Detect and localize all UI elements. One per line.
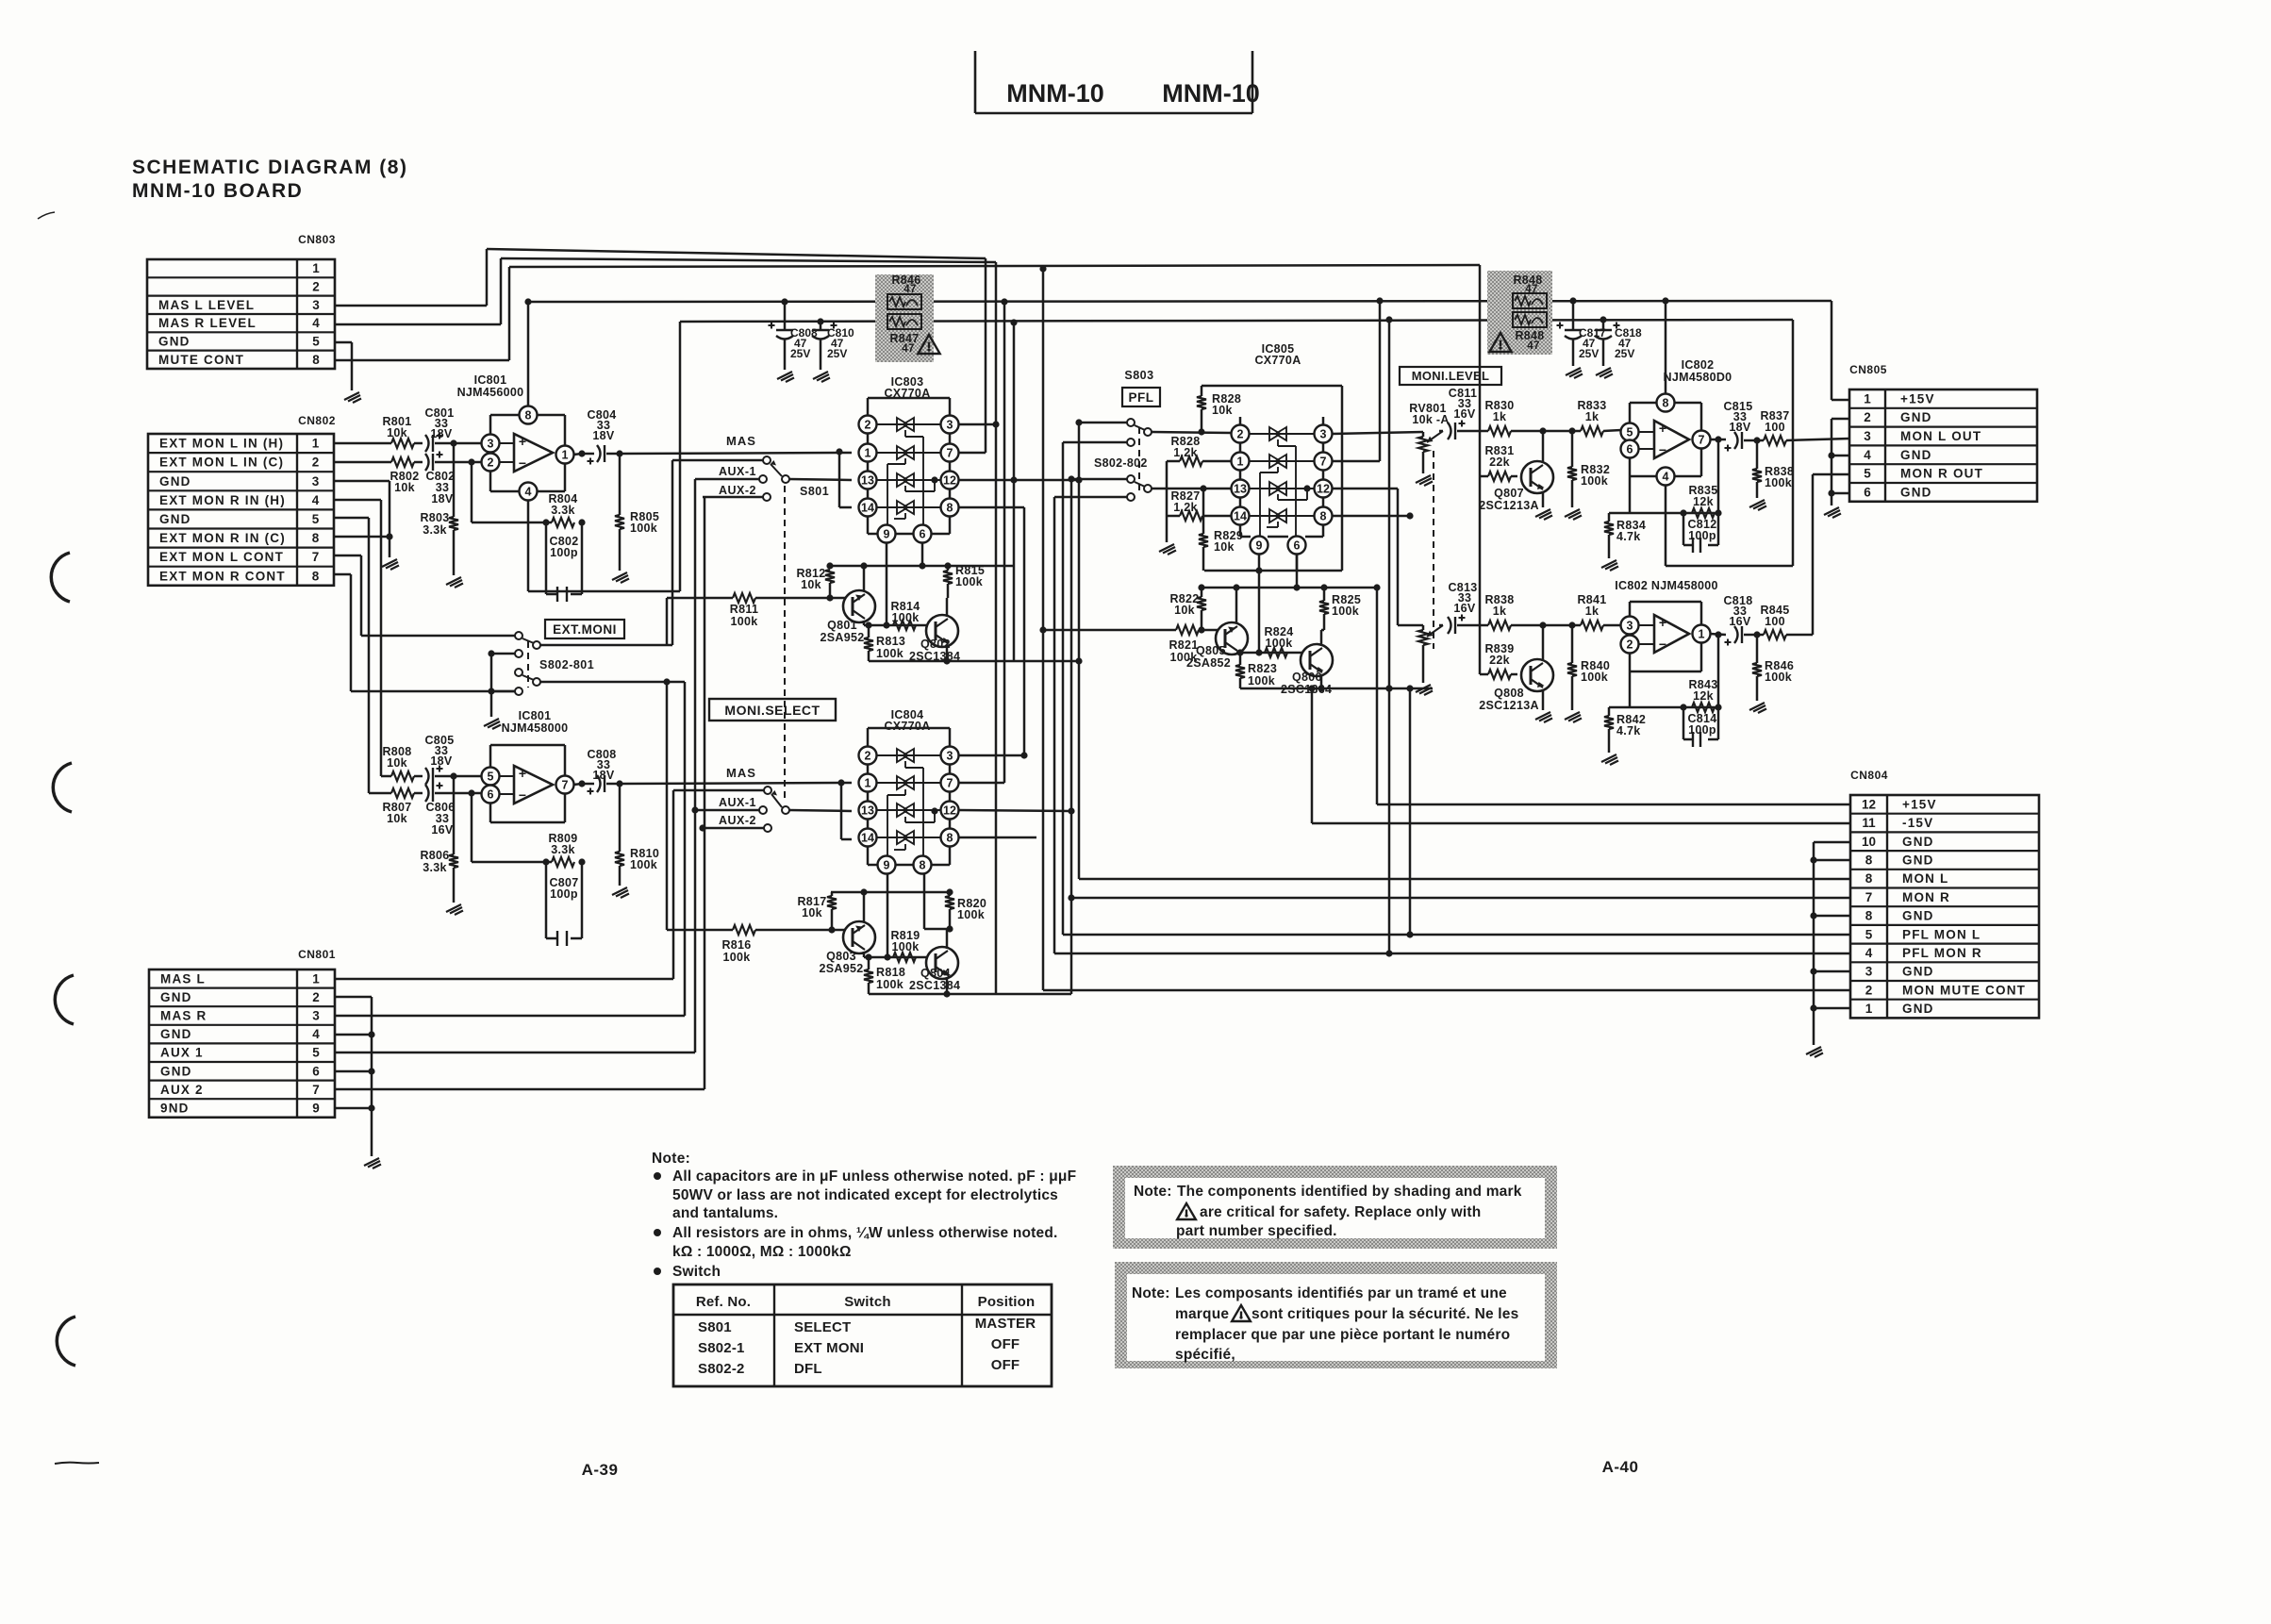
wire Q803 collector node line [864, 956, 928, 959]
capacitor C807 100p feedback [545, 862, 548, 938]
svg-text:+: + [519, 766, 526, 781]
wire PFL MON R riser x1118 [1053, 497, 1056, 953]
capacitor C806 33/16V [425, 785, 429, 802]
svg-text:1: 1 [562, 449, 569, 462]
svg-text:MAS: MAS [726, 766, 756, 780]
wire CN801 pin5 AUX1 riser [335, 1052, 695, 1054]
wire S803 pole2 to IC805 pin13 [1152, 488, 1232, 490]
svg-text:NJM458000: NJM458000 [502, 721, 569, 735]
wire IC805 pin7 line [1332, 460, 1380, 463]
svg-text:All capacitors are in μF unles: All capacitors are in μF unless otherwis… [672, 1168, 1076, 1185]
svg-text:4.7k: 4.7k [1616, 530, 1641, 543]
svg-text:6: 6 [488, 788, 494, 802]
wire Q801 collector node line [864, 624, 928, 627]
resistor R834 4.7k [1608, 513, 1611, 522]
svg-text:MAS L LEVEL: MAS L LEVEL [158, 298, 255, 312]
svg-text:+15V: +15V [1902, 797, 1937, 811]
resistor R839 22k [1480, 673, 1488, 676]
resistor R821 100k [1043, 629, 1176, 632]
capacitor C817 47/25V [1572, 301, 1575, 330]
svg-text:MON R OUT: MON R OUT [1900, 467, 1983, 481]
svg-text:GND: GND [1902, 909, 1934, 923]
wire supply rail Q803 area [831, 891, 953, 894]
svg-text:9: 9 [1256, 539, 1263, 553]
svg-text:100k: 100k [876, 978, 903, 991]
capacitor C804 33/18V [597, 445, 601, 462]
svg-text:PFL MON R: PFL MON R [1902, 946, 1982, 960]
svg-text:marque: marque [1175, 1306, 1229, 1322]
svg-text:7: 7 [947, 777, 953, 790]
svg-text:R813: R813 [876, 635, 905, 648]
svg-text:CN802: CN802 [298, 414, 336, 427]
svg-text:3: 3 [488, 438, 494, 451]
label MONI.LEVEL [1400, 367, 1501, 385]
wire AUX-2 feed deck1 [703, 496, 763, 499]
resistor R842 4.7k [1608, 707, 1611, 716]
svg-text:2: 2 [1864, 410, 1871, 424]
wire supply rail Q801 area [830, 565, 1014, 568]
IC805 bottom box [1204, 570, 1342, 572]
svg-text:CN801: CN801 [298, 948, 336, 961]
wire IC804 pin6 riser [923, 873, 926, 929]
wire IC802A pin4 to -V rail [1665, 485, 1667, 566]
svg-text:part number specified.: part number specified. [1176, 1223, 1337, 1239]
ground below R805 [612, 572, 629, 583]
wire bottom rail Q803 area [869, 993, 1071, 996]
svg-text:16V: 16V [1453, 407, 1476, 421]
svg-text:AUX 1: AUX 1 [160, 1046, 204, 1060]
fusible resistor R848 lower 47 [1513, 312, 1547, 327]
attenuator cells IC804 [876, 754, 941, 756]
svg-text:R818: R818 [876, 966, 905, 979]
wire PFL MON L riser x1127 [1062, 442, 1065, 935]
svg-text:8: 8 [312, 531, 320, 545]
svg-text:S802-2: S802-2 [698, 1361, 745, 1377]
resistor R802 10k [391, 457, 414, 467]
svg-text:3: 3 [312, 298, 320, 312]
wire IC805 pin12 output line [1332, 488, 1398, 490]
node Q803 base [828, 926, 835, 933]
ground CN805 [1824, 507, 1841, 518]
svg-text:−: − [519, 456, 526, 471]
resistor R838 1k [1481, 624, 1488, 627]
svg-text:SCHEMATIC DIAGRAM (8): SCHEMATIC DIAGRAM (8) [132, 157, 407, 178]
wire IC801 pin1 output [573, 454, 582, 455]
svg-text:18V: 18V [430, 754, 453, 768]
svg-text:6: 6 [920, 528, 926, 541]
svg-text:Les composants identifiés par: Les composants identifiés par un tramé e… [1175, 1285, 1507, 1301]
svg-text:16V: 16V [1453, 602, 1476, 615]
wire MON MUTE CONT bus to CN804 [1043, 989, 1850, 992]
wire vertical bus x1056 [995, 262, 998, 994]
ground below R810 [612, 887, 629, 898]
svg-text:13: 13 [1234, 483, 1247, 496]
wire CN801 pin3 MAS R riser [335, 1015, 685, 1018]
page header corner brackets [974, 51, 977, 113]
svg-text:4: 4 [1663, 471, 1669, 484]
svg-text:EXT.MONI: EXT.MONI [553, 622, 617, 637]
svg-text:2SA852: 2SA852 [1186, 656, 1231, 670]
svg-text:100p: 100p [1688, 723, 1716, 737]
svg-text:S802-801: S802-801 [539, 658, 594, 671]
svg-text:13: 13 [861, 804, 874, 818]
svg-text:3: 3 [312, 474, 320, 489]
svg-text:100k: 100k [730, 615, 757, 628]
svg-text:8: 8 [1320, 510, 1327, 523]
svg-text:16V: 16V [1729, 615, 1751, 628]
svg-text:Note:: Note: [1134, 1184, 1172, 1200]
junction to IC803 pin14 [836, 448, 842, 455]
ground below C818 [1596, 368, 1613, 378]
wire IC803 pin3 line [958, 423, 996, 426]
svg-text:25V: 25V [1615, 347, 1634, 360]
svg-text:2SC1213A: 2SC1213A [1479, 699, 1539, 712]
transistor Q801 2SA952 [843, 590, 875, 622]
svg-text:100k: 100k [1581, 474, 1608, 488]
svg-text:12: 12 [943, 474, 956, 488]
svg-text:1: 1 [312, 261, 320, 275]
wire S803 deck2 T1 feed from MON R riser [1071, 478, 1127, 481]
svg-text:AUX-1: AUX-1 [719, 796, 756, 809]
svg-text:3.3k: 3.3k [423, 861, 447, 874]
wire MAS L feed deck2 T1 [673, 789, 764, 792]
svg-text:1.2k: 1.2k [1173, 446, 1198, 459]
svg-text:Q805: Q805 [1196, 644, 1226, 657]
svg-text:GND: GND [1902, 965, 1934, 979]
svg-text:kΩ : 1000Ω, MΩ : 1000kΩ: kΩ : 1000Ω, MΩ : 1000kΩ [672, 1244, 852, 1260]
svg-text:10k: 10k [801, 578, 821, 591]
svg-text:GND: GND [1900, 485, 1932, 499]
node MAS R at C808 output [616, 780, 622, 787]
wire S801 deck1 pole to IC803 pin13 [789, 479, 852, 480]
svg-text:R806: R806 [420, 849, 449, 862]
resistor R805 100k [619, 454, 622, 515]
wire bus C (MUTE CONT) [509, 265, 1480, 267]
transistor Q803 2SA952 [843, 921, 875, 953]
wire CN801 ground chain [335, 996, 372, 999]
resistor R826 1.2k [1167, 460, 1180, 463]
svg-text:100p: 100p [550, 546, 578, 559]
wire CN802 pin5 riser [334, 517, 369, 520]
svg-text:MUTE CONT: MUTE CONT [158, 353, 244, 367]
wire IC804 pin9 riser [887, 873, 889, 957]
resistor R803 3.3k [453, 443, 456, 517]
svg-text:7: 7 [312, 550, 320, 564]
node Q808 collector [1539, 621, 1546, 628]
svg-text:EXT MONI: EXT MONI [794, 1340, 864, 1356]
ground below R803 [446, 577, 463, 588]
svg-text:10k -A: 10k -A [1412, 413, 1449, 426]
feedback wire to R804 [471, 462, 473, 522]
svg-text:10: 10 [1862, 835, 1876, 849]
svg-text:8: 8 [947, 832, 953, 845]
wire IC805 pin3 output line [1332, 432, 1423, 434]
svg-text:EXT MON R IN (H): EXT MON R IN (H) [159, 493, 286, 507]
wire IC802A pin8 riser to bus D [1665, 301, 1667, 393]
svg-text:Position: Position [978, 1294, 1036, 1310]
wire IC802A pin7 output [1710, 439, 1726, 441]
svg-text:100p: 100p [1688, 529, 1716, 542]
wire AUX-1 feed deck1 [695, 478, 759, 481]
svg-text:1: 1 [1237, 456, 1244, 469]
resistor R815 100k [947, 566, 950, 571]
wire -15V line to CN804 pin11 [1312, 822, 1850, 825]
svg-text:GND: GND [160, 1027, 192, 1041]
svg-text:2: 2 [1627, 638, 1633, 652]
svg-text:2: 2 [312, 456, 320, 470]
svg-text:7: 7 [1699, 434, 1705, 447]
svg-text:Q803: Q803 [826, 950, 856, 963]
wire MON L riser x1144 [1078, 423, 1081, 879]
svg-text:IC801: IC801 [519, 709, 552, 722]
svg-text:2: 2 [312, 279, 320, 293]
svg-text:100p: 100p [550, 887, 578, 901]
svg-text:8: 8 [525, 409, 532, 423]
wire IC804 pin12 line [958, 810, 1071, 811]
node R840 top [1568, 621, 1575, 628]
resistor R810 100k [619, 784, 622, 852]
svg-text:47: 47 [902, 343, 914, 355]
svg-text:10k: 10k [1174, 604, 1195, 617]
svg-text:12: 12 [1862, 797, 1876, 811]
svg-text:1: 1 [1699, 628, 1705, 641]
svg-text:25V: 25V [827, 347, 847, 360]
wire CN802 pin7 to EXT.MONI switch [334, 555, 361, 557]
wire MON R bus to CN804 [1071, 897, 1850, 900]
svg-text:Note:: Note: [1132, 1285, 1170, 1301]
capacitor C815 33/18V [1734, 432, 1738, 449]
svg-text:MON MUTE CONT: MON MUTE CONT [1902, 983, 2026, 997]
svg-text:2SC1384: 2SC1384 [909, 979, 960, 992]
resistor R838 100k shunt [1756, 440, 1759, 469]
wire +15V riser to CN804 pin12 [1376, 588, 1379, 804]
wire CN803 pin5 to ground [335, 341, 352, 344]
switch position table [673, 1284, 1052, 1386]
wire CN803 pin3 to bus A [335, 305, 487, 307]
svg-text:18V: 18V [592, 769, 615, 782]
svg-text:3: 3 [312, 1009, 320, 1023]
wire CN805 ground chain [1832, 418, 1849, 421]
node junction at C805 output [450, 772, 456, 779]
label MONI.SELECT [709, 699, 836, 721]
svg-text:13: 13 [861, 474, 874, 488]
svg-text:MASTER: MASTER [975, 1316, 1036, 1332]
svg-text:Note:: Note: [652, 1151, 690, 1167]
svg-text:100k: 100k [722, 951, 750, 964]
wire IC804 pin3 line [958, 754, 1024, 757]
resistor R825 100k [1323, 588, 1326, 601]
transistor Q804 2SC1384 [926, 947, 958, 979]
wire IC801 pin8 riser to bus D [527, 302, 530, 406]
wire MAS line to IC803 [620, 453, 852, 454]
svg-text:+: + [1659, 615, 1666, 630]
svg-text:1k: 1k [1585, 410, 1600, 423]
svg-text:R821: R821 [1169, 638, 1198, 652]
svg-text:1k: 1k [1493, 410, 1507, 423]
wire MON MUTE CONT riser x1106 [1042, 269, 1045, 990]
wire pole2 to MAS R riser [540, 681, 685, 684]
wire Q804 collector node [924, 928, 950, 931]
resistor R809 3.3k [552, 857, 574, 867]
shaded safety block R846/R847 [875, 274, 934, 362]
svg-text:A-39: A-39 [582, 1461, 619, 1479]
wire PFL MON R bus to CN804 [1054, 953, 1850, 955]
svg-text:Q808: Q808 [1494, 687, 1524, 700]
svg-text:IC801: IC801 [474, 373, 507, 387]
svg-text:MONI.LEVEL: MONI.LEVEL [1412, 369, 1489, 383]
svg-text:MAS L: MAS L [160, 971, 206, 986]
svg-text:EXT MON L IN (C): EXT MON L IN (C) [159, 456, 284, 470]
capacitor C810 47/25V [820, 322, 822, 330]
svg-text:CN803: CN803 [298, 233, 336, 246]
transistor Q806 2SC1364 [1301, 644, 1333, 676]
svg-text:GND: GND [1902, 853, 1934, 867]
svg-text:10k: 10k [387, 812, 407, 825]
resistor R845 100 [1764, 630, 1786, 639]
wire +15V riser to CN805 pin1 [1831, 301, 1833, 400]
feedback network IC802A [1629, 476, 1632, 513]
ground CN802 pin3 [382, 559, 399, 570]
wire S802-801 ground chain [491, 653, 515, 655]
capacitor C801 33/18V [425, 435, 429, 452]
resistor R840 100k [1571, 625, 1574, 663]
resistor R801 10k [391, 439, 414, 448]
svg-text:12: 12 [1317, 483, 1330, 496]
svg-text:R811: R811 [730, 603, 758, 616]
svg-text:100k: 100k [891, 611, 919, 624]
wire bus D drop to IC805 pin7 line x1463 [1379, 301, 1382, 461]
svg-text:10k: 10k [394, 481, 415, 494]
switch S803 deck2 [1127, 475, 1135, 483]
ground below C808 47 [777, 372, 794, 382]
svg-text:AUX-2: AUX-2 [719, 814, 756, 827]
svg-text:CN805: CN805 [1849, 363, 1887, 376]
wire IC804 pin8 line [958, 837, 1036, 839]
wire IC803 pin8 line [958, 506, 1024, 509]
svg-text:100k: 100k [1765, 671, 1792, 684]
node Q807 collector [1539, 427, 1546, 434]
svg-text:12k: 12k [1693, 495, 1714, 508]
svg-text:7: 7 [1865, 890, 1873, 904]
node R832 top [1568, 427, 1575, 434]
svg-text:AUX 2: AUX 2 [160, 1083, 204, 1097]
wire MON R riser x1136 [1070, 479, 1073, 994]
ground CN803 pin5 [344, 392, 361, 403]
svg-text:+: + [1659, 421, 1666, 436]
svg-text:50WV or lass are not indicated: 50WV or lass are not indicated except fo… [672, 1187, 1058, 1203]
resistor R830 1k [1481, 430, 1488, 433]
svg-text:18V: 18V [430, 427, 453, 440]
svg-text:6: 6 [1294, 539, 1301, 553]
svg-text:GND: GND [158, 334, 191, 348]
svg-text:PFL: PFL [1129, 390, 1154, 405]
ground CN804 [1806, 1047, 1823, 1057]
resistor R831 22k [1480, 475, 1488, 478]
wire IC805 pin6 riser [1296, 554, 1299, 588]
svg-text:MON R: MON R [1902, 890, 1950, 904]
svg-text:100: 100 [1765, 421, 1785, 434]
wire CN802 pin2 to R802 [334, 461, 391, 464]
svg-text:10k: 10k [1214, 540, 1235, 554]
svg-text:10k: 10k [802, 906, 822, 920]
svg-text:MNM-10: MNM-10 [1006, 79, 1104, 108]
left margin punch-hole arcs [51, 553, 70, 602]
svg-text:4.7k: 4.7k [1616, 724, 1641, 737]
svg-text:18V: 18V [592, 429, 615, 442]
svg-text:47: 47 [1527, 340, 1539, 352]
feedback network IC802B [1629, 671, 1632, 707]
svg-text:5: 5 [488, 771, 494, 784]
attenuator cells IC805 [1249, 433, 1315, 435]
resistor R818 100k [868, 957, 870, 969]
svg-text:The components identified by s: The components identified by shading and… [1177, 1184, 1522, 1200]
node junction at C801 output [450, 439, 456, 446]
wire bus E (+B rail lower) [680, 320, 1793, 322]
svg-text:R823: R823 [1248, 662, 1277, 675]
resistor R841 1k [1581, 621, 1603, 630]
svg-text:2SA952: 2SA952 [821, 631, 865, 644]
resistor R846 100k shunt [1756, 635, 1759, 663]
wire S801 deck2 pole to IC804 pin13 [789, 810, 852, 811]
wire AUX-2 feed deck2 [703, 827, 764, 830]
svg-text:4: 4 [525, 486, 532, 499]
svg-text:6: 6 [1864, 485, 1871, 499]
svg-text:2: 2 [1865, 983, 1873, 997]
svg-text:GND: GND [159, 512, 191, 526]
svg-text:8: 8 [1865, 909, 1873, 923]
svg-text:100k: 100k [1332, 605, 1359, 618]
ground below RV801 lower [1416, 685, 1433, 695]
resistor R812 10k [825, 570, 835, 583]
svg-text:7: 7 [312, 1083, 320, 1097]
wire S801 deck1 T1 feed [672, 459, 763, 462]
svg-text:GND: GND [159, 474, 191, 489]
svg-text:EXT MON L CONT: EXT MON L CONT [159, 550, 284, 564]
svg-text:R803: R803 [420, 511, 449, 524]
mechanical link dash RV801 [1433, 451, 1434, 649]
svg-text:8: 8 [1865, 871, 1873, 886]
IC805 pin circles [1239, 417, 1242, 425]
capacitor C811 33/16V [1439, 430, 1443, 433]
capacitor C812 100p [1683, 513, 1685, 545]
wire bus A (MAS L LEVEL) [487, 249, 986, 258]
svg-text:9: 9 [884, 528, 890, 541]
svg-text:8: 8 [312, 353, 320, 367]
svg-text:S802-1: S802-1 [698, 1340, 745, 1356]
resistor R804 3.3k [552, 518, 574, 527]
ground below R840 [1565, 712, 1582, 722]
svg-text:AUX-1: AUX-1 [719, 465, 756, 478]
wire vertical bus x1065 [1003, 302, 1006, 783]
svg-text:1.2k: 1.2k [1173, 501, 1198, 514]
wire IC801 pin7 output [573, 784, 582, 785]
wire PFL MON L bus to CN804 [1063, 934, 1850, 936]
ground below R826/R827 [1159, 544, 1176, 555]
svg-text:3: 3 [1320, 428, 1327, 441]
svg-text:IC802 NJM458000: IC802 NJM458000 [1615, 579, 1717, 592]
capacitor C805 33/18V [425, 768, 429, 785]
svg-text:MAS R: MAS R [160, 1009, 207, 1023]
resistor R820 100k [949, 892, 952, 896]
svg-text:remplacer que par une pièce po: remplacer que par une pièce portant le n… [1175, 1327, 1510, 1343]
capacitor C808 47/25V [784, 302, 787, 330]
svg-text:8: 8 [1865, 853, 1873, 867]
svg-text:100: 100 [1765, 615, 1785, 628]
svg-text:2SC1213A: 2SC1213A [1479, 499, 1539, 512]
mechanical link dash S801 [784, 486, 786, 800]
svg-text:GND: GND [1902, 835, 1934, 849]
svg-text:3: 3 [947, 750, 953, 763]
